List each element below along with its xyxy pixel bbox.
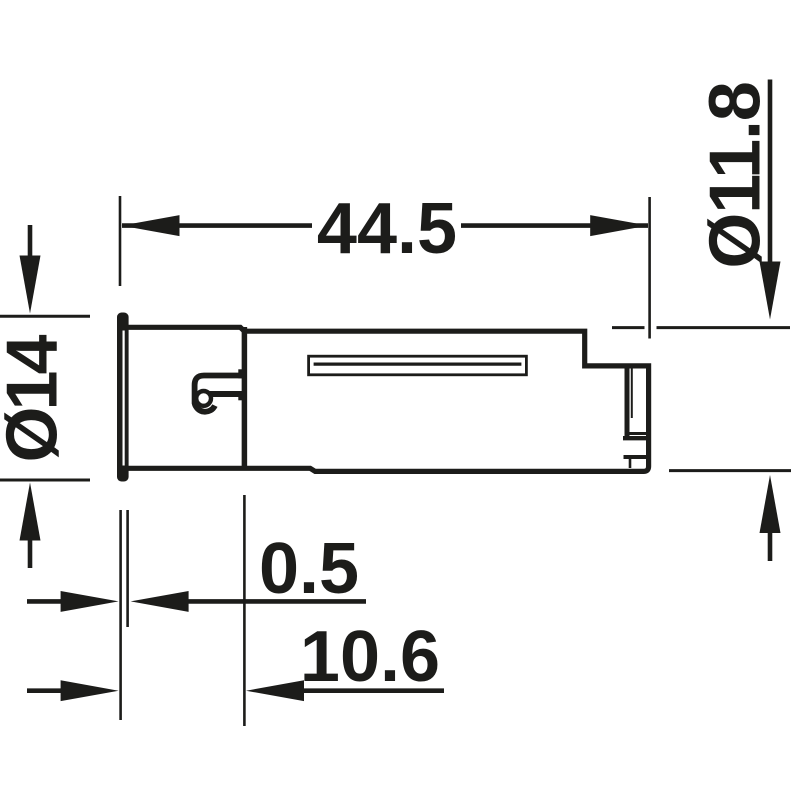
flange lip (0.5mm front collar, rounded ends) — [117, 313, 129, 482]
dimension 10.6 left arrowhead — [61, 680, 119, 701]
right end channel bottom line — [623, 436, 648, 440]
dimension 10.6 left arrow stem — [27, 688, 64, 693]
dimension Ø14 top arrow stem — [28, 225, 33, 258]
dimension 0.5 right arrowhead — [131, 591, 189, 612]
dimension Ø14 bottom arrow stem — [28, 538, 33, 568]
dimension 10.6 right extension line — [243, 495, 246, 726]
flange/body seam — [123, 331, 125, 466]
sleeve divider line — [242, 327, 248, 470]
spring hook: top bar with corner and J-curve — [195, 376, 245, 412]
right end inner channel line — [625, 368, 630, 438]
body outline: top profile, right end, bottom profile — [117, 327, 649, 471]
dimension 44.5 line right segment — [461, 223, 648, 228]
dimension Ø14 top arrowhead — [20, 256, 41, 314]
top slot inner line — [314, 363, 522, 366]
dimension Ø11.8 bottom extension line — [669, 469, 791, 472]
right end foot notch side line — [629, 458, 632, 468]
spring hook eye ring — [196, 391, 211, 406]
dimension 10.6 line — [300, 688, 444, 693]
dimension Ø11.8 vertical line — [768, 80, 773, 266]
dimension Ø11.8 top extension line left segment — [612, 326, 645, 329]
svg-text:10.6: 10.6 — [300, 617, 440, 697]
right end inner thin line — [631, 368, 633, 418]
dimension 44.5 right extension line — [648, 197, 651, 339]
svg-text:0.5: 0.5 — [259, 529, 359, 609]
dimension 0.5 left arrowhead — [61, 591, 119, 612]
dimension 44.5 left arrowhead — [122, 215, 180, 236]
dimension Ø11.8 top extension line right segment — [657, 326, 791, 329]
dimension 0.5 left arrow stem — [27, 599, 64, 604]
dimension Ø11.8 bottom arrow stem — [768, 530, 773, 561]
dimension Ø11.8 top arrowhead — [760, 262, 781, 320]
right end foot notch top line — [624, 455, 649, 459]
dimension 44.5 right arrowhead — [590, 215, 648, 236]
top slot outer rectangle — [309, 356, 527, 375]
dimension Ø14 bottom extension line — [0, 479, 90, 482]
right end channel bottom thin ledge — [629, 432, 646, 435]
dimension Ø14 bottom arrowhead — [20, 483, 41, 541]
dimension Ø14 top extension line — [0, 315, 90, 318]
dimension 0.5 left extension line — [119, 510, 122, 720]
svg-text:44.5: 44.5 — [317, 189, 457, 269]
dimension 0.5 line — [185, 599, 366, 604]
dimension 10.6 right arrowhead — [246, 680, 304, 701]
svg-text:Ø11.8: Ø11.8 — [696, 82, 776, 268]
dimension 44.5 left extension line — [119, 196, 122, 286]
dimension Ø11.8 bottom arrowhead — [760, 475, 781, 533]
dimension 44.5 line left segment — [122, 223, 312, 228]
spring hook top bar step — [238, 369, 244, 378]
dimension 0.5 right extension line — [126, 510, 129, 627]
spring hook lower bar — [209, 391, 245, 397]
spring hook lower bar step — [238, 391, 244, 400]
svg-text:Ø14: Ø14 — [0, 335, 73, 463]
